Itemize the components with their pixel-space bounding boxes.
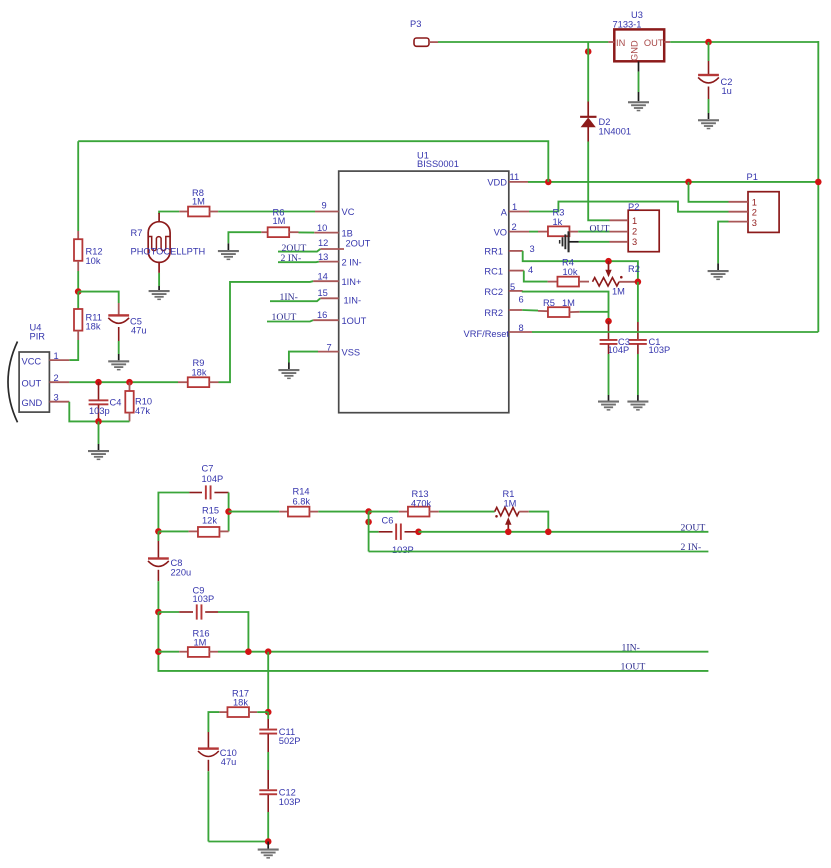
svg-text:1IN+: 1IN+ bbox=[342, 277, 362, 287]
ground R6 bbox=[218, 250, 239, 260]
svg-text:P2: P2 bbox=[628, 202, 639, 212]
wire U3 GND lead bbox=[638, 61, 640, 101]
svg-text:RC1: RC1 bbox=[484, 266, 503, 276]
svg-text:11: 11 bbox=[510, 172, 520, 182]
svg-text:2: 2 bbox=[54, 373, 59, 383]
U1 pin 13 2IN- bbox=[318, 252, 339, 262]
connector P1 bbox=[729, 172, 780, 232]
wire net stub 1IN- bbox=[270, 292, 320, 303]
svg-text:502P: 502P bbox=[279, 736, 301, 746]
wire R7 top corner bbox=[159, 212, 179, 215]
svg-text:12: 12 bbox=[318, 238, 328, 248]
ground C2 bbox=[698, 119, 719, 129]
svg-text:R2: R2 bbox=[628, 264, 640, 274]
svg-text:10: 10 bbox=[317, 223, 327, 233]
U1 pin name 1IN+ bbox=[342, 277, 362, 287]
net label 1IN- bottom bbox=[622, 643, 640, 654]
wire R11 to U4 VCC bbox=[69, 340, 78, 360]
ground P1 pin3 bbox=[708, 270, 729, 280]
node R2 wiper junction bbox=[605, 258, 612, 265]
node R14 junction bbox=[225, 508, 232, 515]
resistor R5 1M bbox=[538, 298, 580, 317]
U4 pin name OUT bbox=[22, 378, 42, 388]
wire C1 bottom lead bbox=[637, 345, 639, 401]
svg-text:R5: R5 bbox=[543, 298, 555, 308]
U1 pin 5 RC2 bbox=[509, 282, 523, 292]
U1 pin name A bbox=[501, 207, 508, 217]
svg-text:47u: 47u bbox=[221, 757, 237, 767]
svg-text:6: 6 bbox=[519, 295, 524, 305]
wire VDD to R12 feed bbox=[78, 141, 548, 182]
resistor R15 12k bbox=[158, 506, 228, 537]
node VDD right corner junction bbox=[815, 179, 822, 186]
potentiometer R2 wiper arrow bbox=[605, 261, 611, 277]
resistor R9 18k bbox=[178, 358, 219, 387]
node VDD-R12 junction bbox=[545, 179, 552, 186]
ground U3 bbox=[628, 101, 649, 111]
wire C7 row left bbox=[158, 493, 189, 532]
U1 pin name RC2 bbox=[484, 287, 503, 297]
U1 pin 11 VDD bbox=[509, 172, 528, 182]
node C9 bottom junction bbox=[245, 648, 252, 655]
U1 pin name 1B bbox=[342, 228, 353, 238]
svg-text:VO: VO bbox=[494, 228, 507, 238]
capacitor C7 104P bbox=[189, 464, 228, 500]
wire R17 vertical bbox=[267, 652, 269, 712]
svg-text:P3: P3 bbox=[410, 19, 421, 29]
U1 pin 6 RR2 bbox=[509, 295, 524, 311]
svg-text:IN: IN bbox=[616, 38, 625, 48]
svg-text:5: 5 bbox=[510, 282, 515, 292]
svg-text:7: 7 bbox=[327, 343, 332, 353]
svg-text:1M: 1M bbox=[612, 286, 625, 296]
svg-text:1OUT: 1OUT bbox=[272, 312, 297, 323]
svg-text:18k: 18k bbox=[233, 698, 248, 708]
node R16 left junction bbox=[155, 648, 162, 655]
svg-text:103p: 103p bbox=[89, 406, 110, 416]
wire RR2 to R5 bbox=[522, 309, 538, 312]
wire C4 bottom to ground bbox=[98, 421, 100, 450]
svg-text:1: 1 bbox=[512, 202, 517, 212]
svg-text:RR2: RR2 bbox=[484, 308, 503, 318]
capacitor C10 47u bbox=[198, 747, 237, 767]
wire RC2 to C3 node bbox=[523, 291, 609, 321]
U1 pin 2 VO bbox=[509, 222, 529, 232]
wire C6 vertical bbox=[368, 512, 370, 552]
svg-text:2: 2 bbox=[512, 222, 517, 232]
wire R1 right to 2OUT rail bbox=[529, 512, 549, 532]
wire R5 to C3 node bbox=[580, 311, 609, 313]
svg-text:C7: C7 bbox=[202, 464, 214, 474]
wire net stub 2 IN- bbox=[278, 253, 319, 264]
U1 pin 14 1IN+ bbox=[313, 271, 339, 281]
wire C10 to ground rail bbox=[208, 841, 268, 843]
wire R8 to U1 VC bbox=[218, 211, 315, 213]
wire P1 pin3 to ground bbox=[718, 222, 728, 270]
wire R14 to R13 node bbox=[318, 511, 368, 513]
node R12/R11/C5 junction bbox=[75, 288, 82, 295]
node R17 top junction bbox=[265, 648, 272, 655]
wire R12 bottom to node bbox=[77, 271, 79, 292]
svg-text:1B: 1B bbox=[342, 228, 353, 238]
U1 pin name 1IN- bbox=[344, 296, 362, 306]
resistor R10 47k bbox=[125, 382, 152, 421]
U1 pin name RC1 bbox=[484, 266, 503, 276]
node R10 top junction bbox=[126, 379, 133, 386]
wire R3 to P2 pin2 (net OUT) bbox=[578, 231, 609, 233]
capacitor C5 47u bbox=[108, 303, 146, 336]
U1 pin name 1OUT bbox=[342, 316, 367, 326]
connector P2 bbox=[610, 202, 660, 252]
wire net stub 2OUT bbox=[278, 243, 320, 254]
svg-text:7133-1: 7133-1 bbox=[613, 19, 642, 29]
U1 pin 16 1OUT bbox=[313, 310, 339, 320]
net label 1OUT bottom bbox=[621, 662, 646, 673]
svg-text:GND: GND bbox=[22, 398, 43, 408]
diode D2 1N4001 bbox=[580, 102, 631, 142]
svg-text:RC2: RC2 bbox=[484, 287, 503, 297]
node D2 top junction bbox=[585, 42, 592, 102]
wire 1IN- rail bbox=[218, 651, 708, 653]
wire C7 right rail bbox=[228, 493, 230, 532]
capacitor C4 103p bbox=[89, 382, 122, 421]
wire C1 top lead bbox=[637, 282, 639, 340]
svg-text:103P: 103P bbox=[193, 594, 215, 604]
svg-text:3: 3 bbox=[54, 393, 59, 403]
resistor R17 18k bbox=[219, 689, 268, 718]
svg-text:1M: 1M bbox=[192, 196, 205, 206]
wire C8 top lead bbox=[157, 531, 159, 558]
U4 pin 1 VCC bbox=[49, 351, 69, 361]
svg-text:2OUT: 2OUT bbox=[346, 239, 371, 249]
wire RC1 to R4 bbox=[524, 271, 548, 282]
svg-text:RR1: RR1 bbox=[484, 247, 503, 257]
wire VDD feed vertical to R12 bbox=[77, 141, 79, 231]
svg-text:103P: 103P bbox=[649, 345, 671, 355]
photocell R7 PHOTOCELLPTH bbox=[131, 213, 206, 273]
capacitor C9 103P bbox=[158, 585, 218, 619]
node R1 wiper junction bbox=[505, 529, 512, 536]
svg-text:OUT: OUT bbox=[644, 38, 664, 48]
capacitor C11 502P bbox=[259, 727, 300, 746]
svg-text:6.8k: 6.8k bbox=[293, 496, 311, 506]
U1 pin name VSS bbox=[342, 348, 361, 358]
svg-text:C6: C6 bbox=[382, 516, 394, 526]
wire R9 to U1 1IN+ bbox=[219, 281, 314, 382]
svg-text:VSS: VSS bbox=[342, 348, 361, 358]
node C9 left junction bbox=[155, 609, 162, 616]
U1 pin name VO bbox=[494, 228, 507, 238]
svg-text:2OUT: 2OUT bbox=[681, 523, 706, 534]
wire P3 to U3 IN (net VIN) bbox=[438, 41, 608, 43]
node VDD-P1 junction bbox=[685, 179, 692, 186]
U1 pin name 2 IN- bbox=[342, 257, 362, 267]
connector P3 bbox=[410, 19, 438, 46]
svg-text:R1: R1 bbox=[503, 489, 515, 499]
ground bottom bbox=[258, 849, 279, 859]
svg-text:15: 15 bbox=[318, 288, 328, 298]
U1 pin 8 VRF bbox=[509, 323, 532, 333]
svg-text:2 IN-: 2 IN- bbox=[681, 542, 702, 553]
node R17/C11 junction bbox=[265, 709, 272, 716]
svg-text:PIR: PIR bbox=[30, 331, 46, 341]
wire VRF/Reset to right edge bbox=[532, 331, 818, 333]
svg-text:R10: R10 bbox=[135, 396, 152, 406]
svg-text:GND: GND bbox=[629, 40, 639, 61]
capacitor C8 220u bbox=[148, 557, 191, 577]
U1 pin 12 2OUT bbox=[318, 238, 344, 249]
potentiometer R1 1M bbox=[495, 489, 529, 518]
svg-text:470k: 470k bbox=[411, 499, 432, 509]
net label OUT bbox=[590, 223, 610, 234]
svg-text:VC: VC bbox=[342, 207, 355, 217]
U1 pin 7 VSS bbox=[318, 343, 339, 353]
U1 pin 4 RC1 bbox=[509, 265, 533, 275]
U1 pin name VRF/Reset bbox=[464, 329, 510, 339]
svg-text:13: 13 bbox=[318, 252, 328, 262]
resistor R8 1M bbox=[179, 188, 218, 216]
svg-text:1: 1 bbox=[752, 197, 757, 207]
resistor R11 18k bbox=[74, 292, 102, 340]
ground VSS bbox=[278, 369, 299, 379]
svg-text:VDD: VDD bbox=[487, 178, 507, 188]
ground PIR bbox=[88, 450, 109, 460]
svg-text:104P: 104P bbox=[202, 474, 224, 484]
wire C12 bottom lead bbox=[267, 795, 269, 842]
svg-text:1M: 1M bbox=[273, 216, 286, 226]
wire R13 to R1 bbox=[439, 511, 495, 513]
resistor R13 470k bbox=[369, 489, 439, 517]
wire R6 left to ground bbox=[228, 232, 261, 250]
node R1 right junction bbox=[545, 529, 552, 536]
wire bottom ground lead bbox=[267, 842, 269, 849]
wire U3 OUT to VDD corner bbox=[670, 41, 818, 43]
svg-text:3: 3 bbox=[632, 237, 637, 247]
svg-text:R7: R7 bbox=[131, 228, 143, 238]
node C3 junction bbox=[605, 318, 612, 325]
svg-text:1k: 1k bbox=[553, 217, 563, 227]
wire VSS to ground bbox=[289, 352, 318, 369]
U1 pin 15 1IN- bbox=[318, 288, 339, 298]
potentiometer R1 wiper arrow bbox=[505, 517, 511, 532]
wire R6 to U1 1B bbox=[299, 231, 315, 233]
wire R7 to ground bbox=[158, 273, 160, 290]
wire C9 to R16 right bbox=[218, 612, 248, 652]
U1 pin 1 A bbox=[509, 202, 529, 212]
svg-text:16: 16 bbox=[317, 310, 327, 320]
svg-text:1: 1 bbox=[54, 351, 59, 361]
svg-text:103P: 103P bbox=[279, 797, 301, 807]
svg-text:14: 14 bbox=[318, 271, 328, 281]
svg-text:220u: 220u bbox=[171, 567, 192, 577]
svg-text:2 IN-: 2 IN- bbox=[281, 253, 302, 264]
svg-text:1IN-: 1IN- bbox=[344, 296, 362, 306]
resistor R16 1M bbox=[158, 629, 218, 657]
node R15 left junction bbox=[155, 528, 162, 535]
ground C1 bbox=[627, 401, 648, 411]
wire RR1 to R2 right bbox=[523, 251, 638, 282]
node bottom ground junction bbox=[265, 838, 272, 845]
svg-text:12k: 12k bbox=[202, 516, 217, 526]
svg-text:3: 3 bbox=[752, 218, 757, 228]
svg-text:OUT: OUT bbox=[590, 223, 610, 234]
U1 pin name RR1 bbox=[484, 247, 503, 257]
wire D2 anode to P2 pin1 bbox=[588, 142, 609, 221]
svg-text:1M: 1M bbox=[562, 298, 575, 308]
svg-text:1M: 1M bbox=[504, 499, 517, 509]
wire VDD rail bbox=[528, 181, 818, 183]
wire C8 bottom lead bbox=[157, 570, 159, 612]
svg-text:47u: 47u bbox=[131, 326, 147, 336]
svg-text:VCC: VCC bbox=[22, 356, 42, 366]
svg-text:BISS0001: BISS0001 bbox=[417, 159, 459, 169]
wire VO to R3 bbox=[529, 231, 538, 233]
svg-text:2 IN-: 2 IN- bbox=[342, 257, 362, 267]
svg-text:PHOTOCELLPTH: PHOTOCELLPTH bbox=[131, 246, 206, 256]
wire U4 OUT to R9 bbox=[69, 381, 178, 383]
svg-text:R4: R4 bbox=[562, 257, 574, 267]
svg-text:OUT: OUT bbox=[22, 378, 42, 388]
U4 pin 3 GND bbox=[49, 393, 69, 403]
wire U4 GND net bbox=[69, 402, 129, 422]
svg-text:103P: 103P bbox=[392, 545, 414, 555]
resistor R12 10k bbox=[74, 231, 103, 271]
svg-text:R15: R15 bbox=[202, 506, 219, 516]
svg-text:2: 2 bbox=[632, 226, 637, 236]
wire 2OUT rail bbox=[419, 531, 709, 533]
svg-text:D2: D2 bbox=[599, 117, 611, 127]
node C6 right junction bbox=[415, 529, 422, 536]
wire P2 pin3 to ground bbox=[568, 241, 609, 243]
U4 pin name GND bbox=[22, 398, 43, 408]
node C2 junction bbox=[705, 39, 712, 46]
svg-text:1IN-: 1IN- bbox=[280, 292, 298, 303]
node C4 top junction bbox=[95, 379, 102, 386]
capacitor C1 103P bbox=[629, 337, 670, 355]
wire C3 top lead bbox=[608, 321, 610, 340]
svg-text:C4: C4 bbox=[110, 398, 122, 408]
U1 pin name RR2 bbox=[484, 308, 503, 318]
wire C11 top lead bbox=[267, 712, 269, 728]
U1 pin name VC bbox=[342, 207, 355, 217]
wire C2 bottom lead bbox=[708, 87, 710, 120]
svg-text:10k: 10k bbox=[563, 267, 578, 277]
wire VDD to P1 pin1 bbox=[689, 182, 729, 202]
wire C3 bottom lead bbox=[608, 345, 610, 401]
node PIR ground junction bbox=[95, 418, 102, 425]
node R2/C1 junction bbox=[635, 279, 642, 286]
wire U1 A to P1 pin2 bbox=[529, 202, 729, 212]
wire net stub 1OUT bbox=[267, 312, 313, 323]
U1 pin name VDD bbox=[487, 178, 507, 188]
U1 pin 3 RR1 bbox=[509, 244, 535, 254]
svg-text:R13: R13 bbox=[412, 489, 429, 499]
U4 pin 2 OUT bbox=[49, 373, 69, 383]
wire C2 top lead bbox=[708, 42, 710, 74]
svg-text:18k: 18k bbox=[86, 322, 101, 332]
capacitor C3 104P bbox=[600, 337, 630, 355]
svg-text:VRF/Reset: VRF/Reset bbox=[464, 329, 510, 339]
wire node to C5 bbox=[78, 292, 119, 303]
svg-text:4: 4 bbox=[528, 265, 533, 275]
capacitor C6 103P bbox=[369, 516, 419, 555]
svg-text:R12: R12 bbox=[86, 246, 103, 256]
svg-text:1OUT: 1OUT bbox=[342, 316, 367, 326]
PIR sensor U4 bbox=[8, 322, 49, 422]
wire 2 IN- rail bbox=[369, 551, 709, 553]
svg-text:2: 2 bbox=[752, 208, 757, 218]
svg-text:R9: R9 bbox=[193, 358, 205, 368]
svg-text:18k: 18k bbox=[192, 368, 207, 378]
svg-text:1u: 1u bbox=[722, 86, 732, 96]
ground C3 bbox=[598, 401, 619, 411]
svg-text:1N4001: 1N4001 bbox=[599, 127, 632, 137]
ground P2 pin3 (rotated) bbox=[559, 231, 570, 252]
wire C11 to C12 bbox=[267, 734, 269, 789]
U1 pin 10 1B bbox=[314, 223, 339, 233]
regulator U3 7133-1 bbox=[608, 10, 670, 61]
svg-text:1IN-: 1IN- bbox=[622, 643, 640, 654]
svg-text:8: 8 bbox=[519, 323, 524, 333]
wire C10 bottom lead bbox=[207, 760, 209, 842]
capacitor C2 1u bbox=[698, 74, 732, 96]
U1 pin name 2OUT bbox=[346, 239, 371, 249]
svg-text:P1: P1 bbox=[747, 172, 758, 182]
resistor R6 1M bbox=[261, 207, 298, 237]
svg-text:1OUT: 1OUT bbox=[621, 662, 646, 673]
U4 pin name VCC bbox=[22, 356, 42, 366]
capacitor C12 103P bbox=[259, 788, 300, 807]
node C6 branch junction bbox=[365, 519, 372, 526]
wire VDD right edge vertical bbox=[817, 41, 819, 332]
node R13 junction bbox=[365, 508, 372, 515]
wire R17 left to C10 bbox=[208, 712, 219, 748]
svg-text:10k: 10k bbox=[86, 256, 101, 266]
ground C5 bbox=[108, 360, 129, 370]
resistor R14 6.8k bbox=[229, 487, 319, 517]
net label 2 IN- bottom bbox=[681, 542, 702, 553]
svg-text:3: 3 bbox=[530, 244, 535, 254]
resistor R4 10k bbox=[548, 257, 589, 286]
svg-text:9: 9 bbox=[322, 201, 327, 211]
op-amp chip U1 BISS0001 bbox=[339, 150, 509, 412]
potentiometer R2 1M bbox=[593, 264, 640, 296]
svg-text:R14: R14 bbox=[293, 487, 310, 497]
svg-text:1M: 1M bbox=[194, 637, 207, 647]
wire left rail to 1OUT bbox=[158, 612, 708, 671]
svg-text:A: A bbox=[501, 207, 508, 217]
U1 pin 9 VC bbox=[315, 201, 339, 212]
svg-text:R3: R3 bbox=[553, 207, 565, 217]
svg-text:1: 1 bbox=[632, 216, 637, 226]
svg-text:104P: 104P bbox=[608, 345, 630, 355]
resistor R3 1k bbox=[538, 207, 578, 236]
net label 2OUT bottom bbox=[681, 523, 706, 534]
wire C5 to ground bbox=[118, 327, 120, 360]
svg-text:47k: 47k bbox=[135, 406, 150, 416]
ground R7 bbox=[149, 290, 170, 300]
